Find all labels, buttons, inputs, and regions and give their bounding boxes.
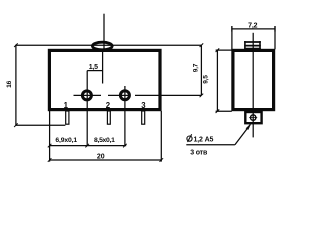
mounting hole 2 (120, 91, 129, 100)
svg-text:1,5: 1,5 (89, 64, 98, 71)
svg-text:3 отв: 3 отв (190, 149, 208, 156)
plunger button ellipse (92, 42, 112, 50)
horizontal hole axis dashes (74, 94, 102, 96)
svg-text:2: 2 (106, 101, 111, 110)
hole 1 vertical axis (86, 71, 88, 146)
hole 2 vertical axis (124, 86, 126, 146)
side view centerline (252, 33, 254, 138)
dimension 7,2 extension lines (231, 26, 233, 49)
dimension 20 line (50, 159, 162, 161)
pin 1 (66, 111, 69, 124)
vertical centerline of plunger (103, 14, 105, 52)
side view terminal (245, 112, 261, 123)
dimension 16 bottom extension (16, 124, 66, 126)
dimension 1,5 line (87, 70, 102, 72)
svg-text:3: 3 (141, 101, 146, 110)
svg-text:1: 1 (64, 101, 69, 110)
side view plunger (244, 41, 246, 50)
pin 3 (142, 111, 145, 124)
mounting hole 1 (82, 91, 91, 100)
top reference line y=44.4 (16, 44, 202, 46)
side view body (233, 50, 274, 109)
svg-text:8,5x0,1: 8,5x0,1 (94, 137, 115, 144)
svg-text:9,5: 9,5 (202, 75, 209, 84)
leader arrowhead (246, 123, 252, 130)
svg-text:16: 16 (6, 80, 13, 87)
svg-text:20: 20 (97, 153, 105, 160)
dimension 7,2 line with end ticks (232, 28, 276, 30)
dimension 16 line (15, 45, 17, 126)
dimension 9,7 line (200, 45, 202, 95)
hole spacing dimension line (50, 145, 127, 147)
terminal hole (251, 115, 256, 120)
diameter symbol (187, 136, 192, 141)
dimension 9,5 line (216, 50, 218, 111)
leader line for hole callout (186, 144, 235, 146)
dimension 9,5 top extension (216, 49, 232, 51)
svg-text:6,9x0,1: 6,9x0,1 (55, 137, 77, 144)
main view body (49, 50, 160, 109)
svg-text:7,2: 7,2 (248, 23, 257, 30)
dimension ticks (14, 43, 219, 161)
dimension 9,5 bottom extension (216, 110, 232, 112)
svg-text:9,7: 9,7 (193, 63, 200, 72)
dimension 20 right extension (160, 111, 162, 162)
dimension 20 left extension (49, 111, 51, 162)
pin 2 (107, 111, 110, 124)
svg-text:1,2 А5: 1,2 А5 (194, 137, 214, 144)
